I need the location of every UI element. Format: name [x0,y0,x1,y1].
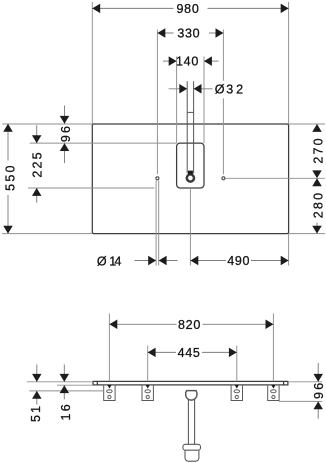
slab end tick left [96,381,98,385]
extension line right hole up (above text) [222,30,224,81]
faucet hole ring [187,174,194,181]
slab end tick right [283,381,285,385]
dim 16 [59,365,73,421]
extension line hole dia left [155,180,157,265]
extension line drain center down [189,188,191,266]
svg-text:445: 445 [178,346,201,360]
dim 980 [92,2,288,16]
dim 820 [109,318,273,332]
dim 96 left [59,106,73,164]
slot tick [187,111,193,113]
svg-text:16: 16 [59,402,73,420]
svg-text:330: 330 [177,27,200,41]
extension line left hole up [156,30,158,175]
faucet platform rounded rect [177,143,204,188]
extension line right edge down [288,234,290,266]
dim 550 [3,124,17,234]
bracket 1 [104,385,115,401]
extension line platform left up [176,57,178,144]
extension line platform top left [30,142,177,144]
svg-text:3: 3 [226,82,234,96]
extension line bottom edge left [2,233,92,235]
bracket 3 [231,385,242,401]
svg-text:96: 96 [312,381,326,399]
dim 270 [312,124,326,178]
svg-text:550: 550 [3,163,17,190]
svg-text:820: 820 [178,318,201,332]
extension line top edge right [289,123,325,125]
svg-text:96: 96 [59,124,73,142]
extension line slab bottom left [57,384,93,386]
dim 51 [29,365,43,423]
svg-text:4: 4 [115,254,123,268]
extension line bracket bottom right [279,400,322,402]
extension line bracket 1 center [108,314,110,382]
svg-text:140: 140 [176,55,199,69]
extension line right hole up (below text) [222,98,224,174]
extension line bottom edge right [289,233,325,235]
svg-text:225: 225 [31,150,45,177]
faucet slot lines [186,81,188,173]
extension line right edge up [288,2,290,124]
dim 140 [163,55,219,69]
svg-text:2: 2 [236,82,244,96]
dim 490 [190,254,288,268]
svg-text:Ø: Ø [215,82,225,96]
extension line platform bottom left [28,187,154,189]
bracket 2 [142,385,153,401]
bracket 4 [268,385,279,401]
slot dark tab [188,171,193,175]
extension line bracket 3 center [236,346,238,382]
extension line bracket 2 center [147,346,149,382]
extension line bracket slot left [29,390,104,392]
dim 280 [312,178,326,233]
extension line bracket 4 center [272,314,274,382]
svg-text:280: 280 [312,191,326,218]
dim 225 [31,125,45,202]
hole left [156,177,159,180]
svg-text:980: 980 [177,2,200,16]
cup rim [183,444,201,450]
svg-text:51: 51 [29,404,43,422]
svg-text:490: 490 [227,254,250,268]
extension line slab top left [27,381,93,383]
hole right [222,177,225,180]
extension line slab top right [288,381,322,383]
extension line hole axis right [225,177,325,179]
cup body [185,450,199,461]
console slab front [93,381,288,385]
extension line platform right up [203,57,205,144]
svg-text:Ø: Ø [97,254,107,268]
svg-text:270: 270 [312,136,326,163]
dim 330 [157,27,223,41]
nut [186,391,197,401]
dim 96 right [312,363,326,419]
dim 445 [148,346,237,360]
extension line hole dia right [158,180,160,265]
pipe [187,399,189,444]
trap [183,391,201,462]
dim diameter 14 [97,254,178,268]
console top rectangle [92,124,288,234]
extension line left edge up [91,2,93,124]
dim diameter 32 [169,82,244,96]
extension line top edge left [2,123,92,125]
